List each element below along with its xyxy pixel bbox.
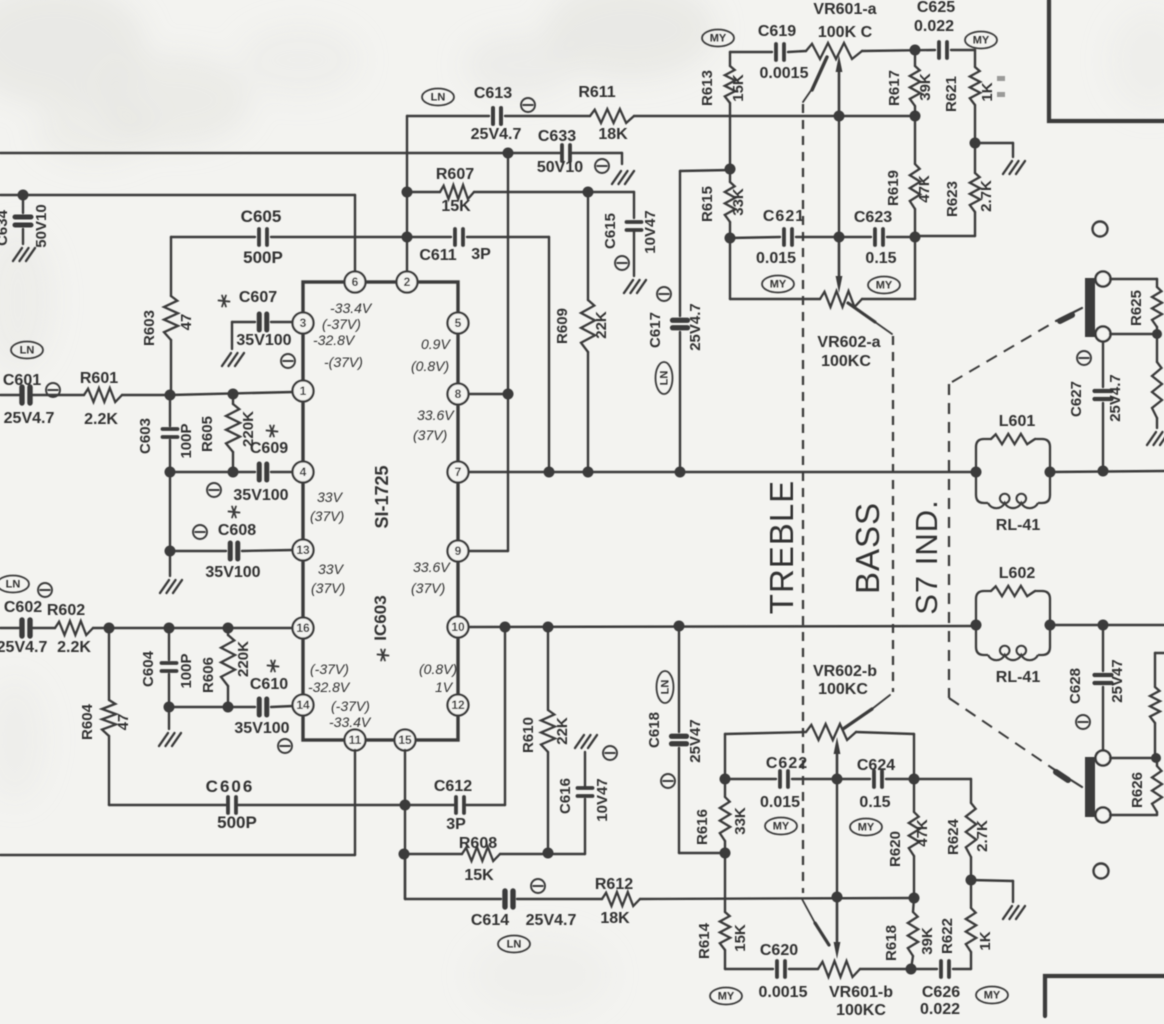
svg-text:35V100: 35V100 [236,332,291,349]
wire pin 8/9 riser [468,153,508,551]
svg-text:LN: LN [660,680,672,695]
pin 2 IC603 [397,272,418,293]
label 15K R613 [730,74,747,102]
label 0.0015 C619 [760,65,809,82]
svg-text:R624: R624 [945,818,962,855]
node R604 top [104,623,115,634]
capacitor C628 25V47 [1095,625,1112,750]
svg-text:15: 15 [398,733,412,747]
svg-text:C610: C610 [250,676,288,693]
polarity C610 [278,739,292,753]
label C617 [647,312,664,348]
svg-text:C620: C620 [760,942,798,959]
label 3P [471,246,491,263]
node C625 left [910,45,921,56]
wire pin 10 output line [469,625,1164,627]
node C634 [18,190,29,201]
svg-text:R618: R618 [883,925,900,961]
svg-text:0.9V: 0.9V [421,336,451,352]
node R616/R614 [720,848,731,859]
wire C613/R611 line [407,115,916,117]
voltage -32.8V [308,679,351,695]
resistor R623 2.7K [916,143,980,236]
svg-text:22K: 22K [554,717,571,745]
label 0.15 C623 [865,250,896,267]
label 0.015 C622 [760,794,800,811]
svg-text:7: 7 [455,465,462,479]
svg-text:11: 11 [349,733,362,747]
voltage -33.4V [330,300,373,316]
wire R626 upper [1110,757,1155,759]
svg-text:LN: LN [659,371,671,386]
label 100KC VR602-b [818,681,868,698]
svg-text:(-37V): (-37V) [331,698,370,714]
label C612 [434,778,472,795]
svg-text:(-37V): (-37V) [310,661,349,677]
voltage (37V) [311,580,345,596]
svg-text:C615: C615 [602,213,619,249]
node C627 top-line [1098,466,1109,477]
node wiper rail [834,232,845,243]
svg-text:100KC: 100KC [836,1002,886,1019]
wire C621/C623 rail [730,237,915,238]
svg-text:15K: 15K [730,74,747,102]
svg-text:1K: 1K [979,82,996,101]
pin 9 IC603 [448,541,469,562]
svg-text:C621: C621 [763,208,805,225]
label C626 [922,984,960,1001]
svg-text:R611: R611 [578,84,615,101]
capacitor C634 50V10 [15,195,31,244]
svg-text:R620: R620 [887,831,904,867]
mech slant VR602-b [843,695,890,729]
oval MY C622 [765,818,797,835]
node R606 bottom [223,702,234,713]
svg-text:C626: C626 [922,984,960,1001]
label R623 [944,181,961,217]
potentiometer VR601-a 100KC [806,43,862,59]
svg-text:16: 16 [296,621,310,635]
label 22K R609 [593,311,610,339]
label 33K R616 [732,807,749,835]
svg-text:C604: C604 [140,650,157,687]
label 100P C604 [178,653,195,688]
node L601 right [1045,467,1056,478]
svg-text:18K: 18K [598,126,628,143]
svg-text:500P: 500P [217,813,257,832]
capacitor C617 25V4.7 [673,170,731,472]
label C616 [557,778,574,814]
resistor R601 2.2K [84,388,122,402]
wire C604 gnd [168,707,170,729]
svg-text:2.2K: 2.2K [57,639,91,656]
svg-text:22K: 22K [593,311,610,339]
capacitor C608 35V100 [170,543,293,559]
label S7 IND. [909,499,944,615]
label 39K R617 [917,73,934,101]
label R607 [436,166,474,183]
open circle upper [1093,222,1108,237]
junction pin8-riser / C633 line [503,148,514,159]
node C628 top-line [1098,620,1109,631]
svg-text:-(37V): -(37V) [324,354,363,370]
svg-text:35V100: 35V100 [234,720,289,737]
oval MY C625 [965,32,997,49]
svg-text:10: 10 [451,620,465,634]
label R624 [945,818,962,855]
svg-text:10V47: 10V47 [594,778,611,821]
polarity C608 [193,525,207,539]
svg-text:14: 14 [296,698,310,712]
label C613 [474,85,512,102]
dashed link TREBLE [802,104,804,893]
label VR601-b [829,984,893,1001]
svg-text:2: 2 [404,275,411,289]
specks [997,76,1005,97]
pin 6 IC603 [345,272,366,293]
svg-text:220K: 220K [235,641,252,677]
polarity C617 [657,287,671,301]
capacitor C619 0.0015 [776,44,784,60]
node R621/R623 [970,138,981,149]
svg-text:15K: 15K [441,198,471,215]
svg-text:33K: 33K [730,188,747,216]
label R620 [887,831,904,867]
wire bass top rail [725,732,914,779]
label 50V10 C634 [33,204,50,247]
wire pin 2 riser [406,116,408,272]
svg-text:C613: C613 [474,85,512,102]
label 33K R615 [730,188,747,216]
node R617/R619 [910,111,921,122]
label 0.015 C621 [756,250,796,267]
label 10V47 C616 [594,778,611,821]
label R603 [141,310,158,346]
voltage (-37V) [322,316,361,332]
svg-text:100KC: 100KC [821,353,871,370]
polarity C601 [46,383,60,397]
wire pin 11 riser [354,750,356,855]
ground C608 [160,580,182,593]
label R611 [578,84,615,101]
ground bass right [1003,906,1025,919]
svg-text:LN: LN [431,92,446,104]
label L601 [999,413,1036,430]
svg-text:35V100: 35V100 [233,487,288,504]
capacitor C614 25V4.7 [505,891,513,907]
node C612 branch [500,622,511,633]
label 35V100 C608 [205,564,260,581]
capacitor C624 0.15 [874,771,882,787]
svg-text:15K: 15K [464,867,494,884]
svg-text:0.022: 0.022 [920,1001,960,1018]
pin 3 IC603 [293,313,314,334]
label 25V4.7 C614 [526,912,577,929]
svg-text:C605: C605 [241,207,282,226]
pin 8 IC603 [448,384,469,405]
svg-text:-33.4V: -33.4V [329,714,372,730]
capacitor C605 500P [259,229,267,245]
svg-text:R603: R603 [141,310,158,346]
svg-text:R602: R602 [47,602,85,619]
polarity C614 [531,879,545,893]
wire gnd stub bass [971,880,1013,902]
svg-text:LN: LN [20,345,35,357]
capacitor C618 25V47 [672,626,726,853]
svg-text:25V4.7: 25V4.7 [4,410,55,427]
svg-text:IC603: IC603 [371,595,390,640]
capacitor C620 0.0015 [777,961,785,977]
label 25V4.7 C617 [687,303,704,351]
wiper arrows treble [836,55,843,293]
label IC603 [371,595,390,660]
label C621 [763,208,805,225]
svg-text:0.0015: 0.0015 [759,984,808,1001]
wire VR602-a rail [730,237,915,299]
wire C614/R612 line [405,854,914,899]
svg-text:C627: C627 [1068,381,1085,417]
svg-text:33V: 33V [318,561,345,577]
wire bass left chain [724,734,726,969]
label 22K R610 [554,717,571,745]
svg-text:MY: MY [858,822,875,834]
node C604 bottom [164,702,175,713]
wire C608 gnd [169,551,171,576]
svg-text:5: 5 [455,316,462,330]
switch S7 lower contact a [1096,751,1111,766]
voltage (37V) [310,508,344,524]
label R616 [694,809,711,845]
node L602 left [971,620,982,631]
svg-text:(37V): (37V) [310,508,344,524]
label R609 [554,308,571,344]
ground C607 [222,353,244,366]
svg-text:VR601-b: VR601-b [829,984,893,1001]
label R615 [699,186,716,222]
svg-text:C601: C601 [3,372,41,389]
voltage (-37V) [331,698,370,714]
svg-text:R623: R623 [944,181,961,217]
node R606 top [223,623,234,634]
label 18K R612 [600,910,630,927]
asterisk C609 [267,426,278,437]
svg-text:(37V): (37V) [311,580,345,596]
svg-text:33.6V: 33.6V [413,559,451,575]
label RL-41 L602 [996,669,1041,686]
resistor R616 33K [720,779,730,841]
oval MY C619 [702,30,734,47]
svg-text:VR602-a: VR602-a [817,334,880,351]
node rail right [910,232,921,243]
mech slant VR601-b [802,899,829,945]
asterisk C608 [229,507,240,518]
label 2.2K R601 [84,411,118,428]
label C606 [206,777,255,796]
svg-text:R613: R613 [699,70,716,106]
svg-text:2.7K: 2.7K [978,180,995,212]
svg-text:R625: R625 [1128,290,1145,326]
node L601 left [971,467,982,478]
label R602 [47,602,85,619]
svg-text:3P: 3P [446,816,466,833]
pin 5 IC603 [448,313,469,334]
capacitor C610 35V100 [259,699,267,715]
svg-text:BASS: BASS [849,502,886,594]
svg-text:47K: 47K [914,819,931,847]
label 500P C606 [217,813,257,832]
node L602 right [1045,620,1056,631]
wire C606 rail [109,627,505,805]
node C608 line [165,546,176,557]
svg-text:R609: R609 [554,308,571,344]
wire pin 15 riser [404,750,406,899]
label 25V4.7 C613 [471,126,522,143]
voltage 33V [317,489,344,505]
switch S7 upper contact b [1096,327,1111,342]
wiper bass arrows [834,737,841,959]
node R610 bottom [543,848,554,859]
label 500P C605 [243,248,283,267]
wire R626 lower [1110,814,1157,816]
label R610 [520,717,537,753]
polarity pin3 [281,354,295,368]
wire R625 bottom feed [1110,333,1157,335]
wire input line 1 [0,392,293,395]
capacitor C601 25V4.7 [22,387,30,403]
capacitor C604 100P [162,628,177,707]
label 47K R620 [914,819,931,847]
voltage (37V) [411,580,445,596]
label R612 [595,876,633,893]
svg-text:R610: R610 [520,717,537,753]
voltage (0.8V) [411,358,449,374]
wire bass bottom rail [725,968,971,970]
node input 1 [165,390,176,401]
resistor R624 2.7K [966,803,976,880]
svg-text:0.022: 0.022 [914,18,954,35]
capacitor C623 0.15 [875,229,883,245]
label C627 [1068,381,1085,417]
resistor R620 47K [909,779,919,898]
wire long lower line [0,799,585,855]
switch S7 upper bar [1085,278,1095,337]
label C610 [250,676,288,693]
label R626 [1129,772,1146,808]
svg-text:-32.8V: -32.8V [313,332,356,348]
label R625 [1128,290,1145,326]
wire R625 top [1110,278,1157,280]
polarity C602 [38,583,52,597]
label 15K R607 [441,198,471,215]
label 25V4.7 C602 [0,639,47,656]
resistor above R626 [1150,653,1164,758]
capacitor C603 100P [163,395,178,472]
wire gnd stub treble [975,143,1013,157]
label 220K R605 [240,411,257,447]
svg-text:2.7K: 2.7K [974,820,991,852]
svg-text:C628: C628 [1067,668,1084,704]
capacitor C625 0.022 [939,42,947,58]
node bass wiper rail [832,774,843,785]
svg-text:C609: C609 [250,440,288,457]
svg-text:C608: C608 [218,522,256,539]
capacitor C616 10V47 [578,752,593,796]
node bass rail right [909,774,920,785]
node C605/C611 line [402,232,413,243]
label R617 [886,70,903,106]
node R624/R622 [966,875,977,886]
svg-text:C612: C612 [434,778,472,795]
label 100KC VR601-a [818,24,873,41]
capacitor C633 50V10 [562,145,570,161]
label R613 [699,70,716,106]
potentiometer VR602-a 100KC [820,291,862,307]
capacitor C612 3P [456,797,464,813]
pin 12 IC603 [448,695,469,716]
node R609 top [583,187,594,198]
svg-text:R622: R622 [939,918,956,954]
dashed link S7 upper diag [952,308,1082,382]
svg-text:MY: MY [710,33,727,45]
pin 16 IC603 [293,618,314,639]
node R618 top [909,893,920,904]
dashed link S7 lower diag [949,698,1082,787]
node C603 bottom [165,467,176,478]
ground C615 [624,280,646,293]
label 39K R618 [919,927,936,955]
pin 15 IC603 [395,730,416,751]
label C634 [0,209,11,246]
label C620 [760,942,798,959]
ground C634 [13,248,35,261]
svg-text:39K: 39K [919,927,936,955]
svg-text:MY: MY [984,990,1001,1002]
switch S7 lower contact b [1096,808,1111,823]
ground R625 [1147,432,1164,445]
svg-text:R612: R612 [595,876,633,893]
svg-text:MY: MY [973,35,990,47]
pin 11 IC603 [345,730,366,751]
svg-text:R626: R626 [1129,772,1146,808]
label 35V100 C609 [233,487,288,504]
polarity C616 [603,746,617,760]
oval LN C601 [11,342,43,359]
resistor R625 [1152,279,1162,428]
label 0.022 C625 [914,18,954,35]
svg-text:RL-41: RL-41 [996,669,1041,686]
resistor R610 22K [541,627,555,853]
label 15K R608 [464,867,494,884]
label 47 R604 [115,714,132,731]
svg-text:(-37V): (-37V) [322,316,361,332]
label C605 [241,207,282,226]
svg-text:100K C: 100K C [818,24,873,41]
polarity C633 [595,159,609,173]
label R601 [80,370,118,387]
resistor R622 1K [966,880,976,969]
label 2.7K R623 [978,180,995,212]
svg-text:R608: R608 [459,835,497,852]
label 100P C603 [178,423,195,458]
label C619 [758,23,796,40]
label C608 [218,522,256,539]
svg-text:R604: R604 [79,703,96,740]
capacitor C621 0.015 [784,229,792,245]
label 0.15 C624 [859,794,890,811]
svg-text:R617: R617 [886,70,903,106]
label VR601-a [813,1,876,18]
label C615 [602,213,619,249]
